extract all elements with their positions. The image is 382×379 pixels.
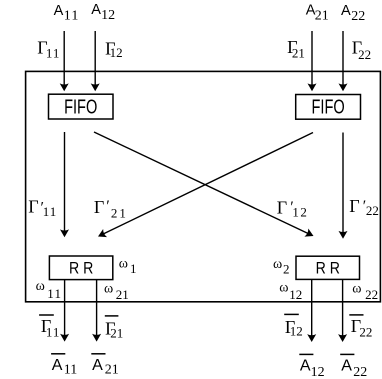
svg-text:11: 11 — [64, 363, 77, 378]
vertical wire arrow from right FIFO to right RR — [339, 133, 348, 239]
svg-text:R R: R R — [316, 259, 340, 278]
svg-text:ω: ω — [119, 257, 128, 272]
label A-bar11 — [51, 354, 77, 378]
label omega21 — [104, 281, 129, 302]
label Gamma-bar22 — [349, 315, 372, 339]
label A22 — [341, 3, 365, 24]
label Gamma'11 — [28, 197, 57, 219]
left RR box — [49, 256, 112, 280]
svg-text:12: 12 — [290, 324, 303, 339]
svg-text:22: 22 — [353, 365, 367, 379]
svg-text:22: 22 — [351, 9, 365, 24]
output arrow from left RR col1 — [60, 280, 69, 342]
label A-bar21 — [91, 354, 118, 378]
svg-text:11: 11 — [47, 286, 62, 301]
label Gamma21 — [287, 37, 305, 61]
crossing diagonal arrow from left FIFO to right RR — [94, 132, 315, 240]
svg-text:22: 22 — [358, 47, 371, 62]
svg-text:11: 11 — [46, 46, 61, 61]
input arrow A12 into left FIFO — [91, 31, 100, 91]
svg-text:′: ′ — [106, 198, 110, 215]
svg-text:21: 21 — [111, 205, 128, 220]
svg-text:12: 12 — [292, 205, 308, 220]
label A12 — [91, 2, 115, 23]
svg-text:A: A — [54, 3, 64, 19]
output arrow from right RR col3 — [307, 279, 316, 342]
outer enclosure box — [26, 71, 381, 301]
svg-text:12: 12 — [289, 287, 302, 302]
label A-bar22 — [340, 354, 367, 379]
svg-text:A: A — [92, 357, 103, 374]
right FIFO box — [296, 95, 361, 120]
svg-text:1: 1 — [130, 261, 137, 276]
svg-text:12: 12 — [110, 45, 123, 60]
svg-text:21: 21 — [105, 363, 119, 378]
svg-text:ω: ω — [279, 280, 288, 295]
label Gamma'21 — [94, 197, 128, 220]
label Gamma12 — [105, 38, 123, 60]
svg-text:Γ: Γ — [277, 197, 287, 217]
svg-text:21: 21 — [110, 326, 123, 341]
svg-text:Γ: Γ — [28, 197, 38, 217]
label Gamma11 — [37, 38, 60, 61]
svg-text:21: 21 — [292, 46, 305, 61]
label A11 — [54, 3, 80, 24]
label omega2 — [273, 257, 290, 276]
label Gamma'22 — [349, 196, 379, 218]
svg-text:ω: ω — [352, 282, 361, 297]
svg-text:ω: ω — [104, 281, 113, 296]
label A-bar12 — [299, 354, 324, 379]
crossing diagonal arrow from right FIFO to left RR — [96, 133, 313, 241]
svg-text:11: 11 — [64, 9, 80, 24]
output arrow from right RR col4 — [338, 279, 347, 342]
label Gamma22 — [352, 38, 371, 62]
input arrow A21 into right FIFO — [308, 31, 317, 91]
left FIFO box — [49, 94, 114, 119]
svg-text:22: 22 — [365, 287, 378, 302]
label Gamma-bar11 — [39, 315, 60, 340]
svg-text:11: 11 — [43, 204, 58, 219]
input arrow A22 into right FIFO — [339, 31, 348, 91]
svg-text:Γ: Γ — [94, 197, 104, 217]
svg-text:A: A — [91, 2, 101, 18]
svg-text:22: 22 — [366, 203, 379, 218]
svg-text:A: A — [52, 357, 63, 374]
label omega22 — [352, 282, 378, 303]
svg-text:21: 21 — [116, 287, 129, 302]
input arrow A11 into left FIFO — [60, 31, 69, 91]
svg-text:FIFO: FIFO — [312, 97, 345, 119]
right RR box — [296, 256, 360, 279]
svg-text:FIFO: FIFO — [64, 96, 97, 118]
svg-text:A: A — [300, 357, 311, 374]
label omega1 — [119, 257, 137, 277]
output arrow from left RR col2 — [92, 280, 101, 342]
label omega12 — [279, 280, 302, 302]
svg-text:Γ: Γ — [349, 196, 359, 216]
label A21 — [306, 3, 329, 24]
svg-text:12: 12 — [101, 8, 115, 23]
svg-text:12: 12 — [311, 365, 325, 379]
label Gamma-bar21 — [105, 316, 124, 341]
svg-text:ω: ω — [273, 257, 282, 272]
svg-text:11: 11 — [46, 325, 61, 340]
svg-text:22: 22 — [359, 324, 372, 339]
svg-text:A: A — [341, 3, 351, 19]
svg-text:A: A — [341, 357, 352, 374]
svg-text:R R: R R — [69, 259, 93, 278]
vertical wire arrow from left FIFO to left RR — [60, 132, 69, 237]
svg-text:21: 21 — [315, 9, 329, 24]
label Gamma-bar12 — [284, 314, 303, 338]
svg-text:2: 2 — [283, 261, 290, 276]
svg-text:ω: ω — [36, 279, 45, 294]
label Gamma'12 — [277, 197, 309, 219]
label omega11 — [36, 279, 63, 301]
